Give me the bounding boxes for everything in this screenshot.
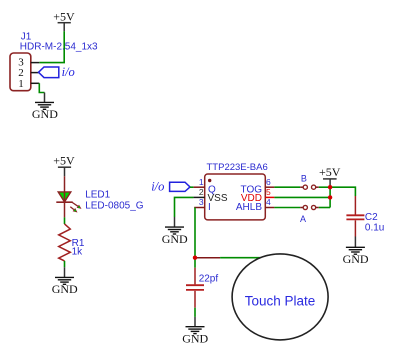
capacitor C2 <box>346 215 364 219</box>
junction node (pin3/cap/touch) <box>193 256 197 260</box>
net flag i/o (J1 pin 2) <box>39 65 75 79</box>
svg-text:22pf: 22pf <box>199 273 219 284</box>
capacitor 22pf <box>186 285 204 290</box>
wire jumper A to +5V column <box>319 207 330 209</box>
svg-text:A: A <box>300 214 306 224</box>
U1 pin 5 stub <box>265 196 274 198</box>
svg-text:GND: GND <box>182 331 208 345</box>
power +5V (J1 net) <box>53 10 75 32</box>
ground GND (22pf) <box>182 317 208 345</box>
connector J1 body <box>10 53 31 91</box>
J1 pin 1 stub <box>31 82 40 84</box>
wire +5V node to C2 <box>330 187 355 214</box>
svg-text:GND: GND <box>32 107 58 121</box>
svg-text:1k: 1k <box>72 247 84 258</box>
junction node VDD <box>328 195 332 199</box>
svg-text:B: B <box>301 174 307 184</box>
svg-text:GND: GND <box>343 252 369 266</box>
power +5V (U1 VDD net) <box>319 165 341 187</box>
jumper A (open) <box>300 205 319 209</box>
svg-text:+5V: +5V <box>53 10 75 24</box>
wire LED1 cathode to R1 <box>64 202 66 224</box>
wire +5V node down to VDD row <box>329 187 331 207</box>
svg-text:+5V: +5V <box>319 165 341 179</box>
svg-text:5: 5 <box>266 187 271 197</box>
svg-text:GND: GND <box>162 232 188 246</box>
wire junction to touch plate (pin) <box>195 257 263 259</box>
svg-text:LED-0805_G: LED-0805_G <box>85 201 144 212</box>
wire J1 pin1 to GND <box>39 83 44 92</box>
svg-text:3: 3 <box>199 197 204 207</box>
svg-text:1: 1 <box>199 177 204 187</box>
J1 pin 3 stub <box>31 62 40 64</box>
svg-text:0.1u: 0.1u <box>365 222 384 233</box>
wire junction to 22pf capacitor <box>194 258 196 285</box>
wire U1 pin3 (I) down to junction <box>194 208 196 258</box>
svg-text:2: 2 <box>199 187 204 197</box>
resistor R1 <box>59 224 71 261</box>
wire +5V to LED1 anode <box>64 176 66 192</box>
svg-text:AHLB: AHLB <box>236 202 262 213</box>
U1 pin 2 stub <box>193 196 204 198</box>
wire C2 to GND <box>354 220 356 236</box>
wire jumper B to +5V node <box>319 186 330 188</box>
svg-text:HDR-M-2.54_1x3: HDR-M-2.54_1x3 <box>20 41 98 52</box>
svg-text:i/o: i/o <box>62 65 75 79</box>
LED LED1 <box>56 192 81 213</box>
U1 pin 3 stub <box>194 207 205 209</box>
svg-text:i/o: i/o <box>151 180 164 194</box>
svg-text:I: I <box>208 202 211 213</box>
wire U1 pin6 (TOG) to jumper B <box>274 186 300 188</box>
IC U1 TTP223E-BA6 body <box>205 174 266 220</box>
wire i/o flag to U1 pin 1 <box>190 186 193 188</box>
touch plate electrode <box>232 254 328 340</box>
svg-text:1: 1 <box>18 78 24 90</box>
wire U1 pin2 (VSS) to GND <box>175 197 194 217</box>
svg-text:4: 4 <box>266 197 271 207</box>
junction node B/+5V <box>328 185 332 189</box>
J1 pin 2 stub <box>31 72 39 74</box>
jumper B (open) <box>300 185 319 189</box>
ground GND (R1) <box>52 267 78 296</box>
net flag i/o (U1 pin 1) <box>151 180 190 194</box>
power +5V (LED net) <box>53 154 75 177</box>
wire U1 pin5 (VDD) to node <box>274 196 330 198</box>
U1 pin 1 stub <box>193 186 204 188</box>
U1 pin 4 stub <box>265 207 274 209</box>
wire U1 pin4 (AHLB) to jumper A <box>274 207 300 209</box>
U1 pin 6 stub <box>265 186 274 188</box>
wire R1 to GND <box>64 261 66 267</box>
svg-text:TTP223E-BA6: TTP223E-BA6 <box>207 162 268 173</box>
wire J1 pin3 to +5V <box>39 31 64 62</box>
svg-text:GND: GND <box>52 282 78 296</box>
svg-text:+5V: +5V <box>53 154 75 168</box>
svg-text:Touch Plate: Touch Plate <box>245 293 316 308</box>
svg-text:LED1: LED1 <box>85 190 110 201</box>
ground GND (C2) <box>343 237 369 266</box>
ground GND (U1 VSS) <box>162 217 188 246</box>
svg-text:6: 6 <box>266 177 271 187</box>
ground GND (J1) <box>32 93 58 122</box>
wire 22pf to GND <box>194 291 196 317</box>
